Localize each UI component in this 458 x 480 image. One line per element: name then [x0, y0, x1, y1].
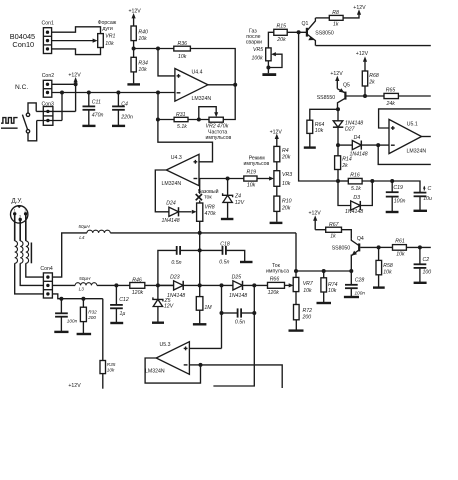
zener Z5 12V — [152, 285, 174, 322]
resistor R66 120k — [268, 277, 294, 296]
svg-text:R34: R34 — [138, 61, 148, 67]
wire stub A left — [213, 313, 254, 386]
svg-text:C12: C12 — [119, 297, 129, 303]
svg-text:1M: 1M — [204, 305, 212, 311]
svg-text:10k: 10k — [138, 67, 147, 73]
svg-text:R46: R46 — [132, 278, 142, 284]
svg-text:Con10: Con10 — [12, 40, 34, 49]
svg-text:R31: R31 — [176, 112, 186, 118]
diode D23 1N4148 — [156, 275, 233, 299]
svg-text:VR1: VR1 — [105, 34, 115, 40]
svg-text:R32: R32 — [88, 309, 97, 314]
svg-text:20k: 20k — [276, 37, 286, 43]
resistor R65 24k — [365, 88, 431, 107]
capacitor C21 100n — [414, 247, 432, 282]
svg-text:R16: R16 — [350, 172, 360, 178]
capacitor 100n (Con4) — [54, 299, 77, 332]
svg-text:1: 1 — [14, 208, 16, 212]
svg-text:LM324N: LM324N — [407, 148, 427, 154]
label N.C. — [15, 84, 28, 91]
svg-text:10k: 10k — [178, 54, 187, 60]
wire U5.3 output feedback — [145, 358, 202, 383]
svg-text:R4: R4 — [282, 148, 289, 154]
resistor 1M — [193, 285, 212, 324]
svg-text:Z4: Z4 — [234, 193, 241, 199]
label Форсаж дуги — [98, 20, 117, 32]
resistor R72 200 — [289, 292, 313, 331]
wire U5.3 -input row stub B — [189, 365, 282, 388]
svg-text:0.5n: 0.5n — [219, 259, 229, 265]
svg-text:L4: L4 — [79, 235, 85, 240]
svg-text:Con4: Con4 — [40, 266, 53, 272]
resistor R68 2k — [356, 51, 379, 98]
switch — [22, 103, 36, 141]
X mark base current test point — [196, 194, 202, 200]
svg-text:R68: R68 — [369, 73, 379, 79]
svg-text:R66: R66 — [270, 277, 280, 283]
svg-text:импульсов: импульсов — [244, 161, 270, 167]
svg-text:C2: C2 — [423, 257, 430, 263]
ground under VR5 — [262, 73, 276, 76]
svg-text:5.1k: 5.1k — [177, 124, 187, 130]
connector DIN remote — [11, 206, 28, 223]
svg-text:120k: 120k — [268, 290, 280, 296]
wire Con1 pin3 to VR1 bottom — [52, 48, 101, 55]
power +12V above R40 — [129, 9, 142, 27]
svg-text:R8: R8 — [332, 10, 339, 16]
svg-text:+12V: +12V — [353, 5, 366, 11]
wire U5.3 +input — [189, 347, 221, 349]
svg-text:50µH: 50µH — [78, 224, 90, 229]
svg-text:R61: R61 — [395, 239, 405, 245]
wire Con4 pin3 row — [52, 294, 102, 301]
diode D24 1N4148 — [162, 201, 192, 224]
svg-text:C18: C18 — [220, 241, 230, 247]
svg-text:D24: D24 — [166, 201, 176, 207]
svg-text:C28: C28 — [355, 278, 365, 284]
svg-text:10k: 10k — [396, 252, 405, 258]
svg-text:100n: 100n — [67, 318, 78, 323]
wire Con4 pin1 to L4 row — [52, 233, 87, 277]
resistor R15 20k — [268, 23, 306, 48]
transformer choke 3-wire — [15, 215, 44, 294]
svg-text:Q4: Q4 — [357, 236, 364, 242]
resistor R61 10k — [379, 239, 431, 258]
svg-text:10k: 10k — [105, 41, 114, 47]
svg-text:D27: D27 — [345, 126, 356, 132]
wire -input node to R31 row — [156, 118, 174, 122]
power +12V at Q5 — [330, 71, 343, 89]
wire U5.1 output stub — [422, 136, 431, 138]
power +12V at R67 — [309, 210, 322, 229]
svg-text:U5.3: U5.3 — [160, 342, 171, 348]
svg-text:220n: 220n — [120, 114, 133, 120]
svg-text:0.5n: 0.5n — [171, 260, 181, 266]
svg-text:20k: 20k — [281, 205, 291, 211]
diode D3 1N4148 loop — [338, 181, 372, 215]
op-amp U4.4 LM324N — [175, 69, 211, 103]
resistor R34 10k — [131, 49, 148, 84]
svg-text:R65: R65 — [386, 88, 396, 94]
connector Con1 — [42, 21, 55, 54]
wire U4.3 output to D24 — [155, 170, 169, 212]
svg-text:Q5: Q5 — [343, 83, 350, 89]
ground under R34 — [127, 83, 140, 85]
capacitor C12 1u — [110, 283, 129, 323]
label Частота импульсов — [206, 130, 232, 141]
svg-text:100: 100 — [423, 270, 432, 276]
wire Con1 pin2 wiper arrow — [52, 39, 98, 43]
svg-text:R10: R10 — [282, 198, 292, 204]
power +12V above R4 — [270, 129, 283, 146]
svg-text:3: 3 — [19, 215, 21, 219]
label Ток импульса — [266, 263, 289, 274]
potentiometer VR3 10k — [274, 171, 292, 187]
wire to U4.3 +input — [158, 120, 213, 162]
svg-text:10k: 10k — [282, 181, 291, 187]
svg-text:Д.У.: Д.У. — [12, 197, 23, 204]
wire U4.4 output and feedback to VR2 right — [208, 83, 237, 120]
potentiometer VR7 10k — [293, 277, 314, 294]
svg-text:VR5: VR5 — [253, 47, 263, 53]
svg-text:D25: D25 — [232, 275, 242, 281]
resistor R64 10k — [307, 107, 340, 146]
square wave symbol — [1, 118, 18, 129]
svg-text:VR3: VR3 — [282, 172, 292, 178]
svg-text:R72: R72 — [303, 308, 313, 314]
svg-text:2k: 2k — [341, 163, 348, 169]
svg-text:D3: D3 — [353, 195, 360, 201]
resistor R19 10k — [244, 170, 274, 189]
svg-text:10k: 10k — [107, 367, 115, 372]
svg-text:5.1k: 5.1k — [351, 186, 361, 192]
svg-text:12V: 12V — [164, 304, 174, 310]
svg-text:10k: 10k — [328, 288, 337, 294]
svg-text:U4.4: U4.4 — [192, 69, 203, 75]
capacitor C28 100n — [344, 271, 365, 297]
svg-text:10u: 10u — [423, 196, 432, 202]
resistor R67 1k — [315, 222, 351, 240]
svg-text:R74: R74 — [328, 282, 338, 288]
svg-text:1k: 1k — [333, 21, 339, 27]
connector Con4 — [40, 266, 53, 298]
connector Con3 — [42, 101, 55, 125]
svg-text:2: 2 — [25, 208, 27, 212]
capacitor C4 220n — [112, 93, 133, 126]
svg-text:N.C.: N.C. — [15, 84, 28, 91]
svg-text:Con3: Con3 — [42, 101, 55, 107]
capacitor C electrolytic 10u — [392, 181, 432, 211]
label Газ после сварки — [246, 28, 262, 45]
wire pulse current node column — [294, 233, 353, 278]
wire U5.1 +input feedback — [379, 109, 431, 128]
svg-text:470k: 470k — [205, 211, 217, 217]
svg-text:R35: R35 — [107, 362, 116, 367]
svg-text:VR8: VR8 — [205, 204, 215, 210]
wire VR8 bottom column — [198, 233, 202, 288]
resistor R8 1k — [316, 10, 360, 28]
resistor R46 120k — [130, 278, 174, 296]
wire U4.3 -input row — [199, 177, 244, 181]
svg-text:R40: R40 — [138, 30, 148, 36]
power +12V at Con2/Con3 — [68, 73, 81, 112]
resistor R4 20k — [274, 146, 291, 170]
wire -input row y92.5 — [52, 91, 175, 120]
svg-text:1µ: 1µ — [120, 311, 126, 317]
svg-text:200: 200 — [302, 314, 312, 320]
svg-text:0.5n: 0.5n — [235, 319, 245, 325]
resistor R40 10k — [131, 26, 148, 49]
transistor Q4 SS8050 — [332, 236, 379, 271]
resistor R31 5.1k — [174, 112, 209, 130]
ground under R64 — [304, 146, 316, 148]
svg-text:U5.1: U5.1 — [407, 122, 418, 128]
resistor R36 10k — [174, 41, 191, 60]
resistor R16 5.1k — [336, 172, 392, 191]
diode D27 1N4148 — [333, 109, 363, 145]
svg-text:R15: R15 — [277, 23, 287, 29]
potentiometer VR2 470k — [197, 107, 229, 130]
svg-text:100n: 100n — [394, 198, 406, 204]
capacitor C11 470n — [82, 93, 103, 126]
capacitor 0.5n lower — [220, 285, 257, 348]
label +12V at R35 — [68, 383, 81, 389]
capacitor C18 0.5n — [200, 241, 253, 265]
svg-text:+12V: +12V — [270, 129, 283, 135]
wire Con1 pin1 to VR1 top — [52, 27, 101, 34]
resistor R74 10k — [317, 271, 338, 303]
svg-text:10k: 10k — [303, 288, 312, 294]
svg-text:LM324N: LM324N — [162, 181, 182, 187]
zener Z4 12V — [221, 179, 245, 220]
svg-text:+12V: +12V — [68, 383, 81, 389]
svg-text:200: 200 — [87, 315, 96, 320]
svg-text:C4: C4 — [121, 102, 128, 108]
svg-text:+12V: +12V — [129, 9, 142, 15]
svg-text:+12V: +12V — [68, 73, 81, 79]
potentiometer VR5 100k — [252, 47, 283, 73]
svg-text:C: C — [428, 186, 432, 192]
label Базовый ток — [198, 188, 219, 201]
resistor R10 20k — [274, 186, 292, 222]
svg-text:2k: 2k — [368, 80, 375, 86]
svg-text:1N4148: 1N4148 — [162, 218, 180, 224]
svg-text:Форсаж: Форсаж — [98, 20, 117, 26]
svg-text:Con1: Con1 — [42, 21, 55, 27]
power +12V at R8 — [353, 5, 366, 15]
svg-text:D4: D4 — [354, 135, 361, 141]
svg-text:L3: L3 — [79, 287, 85, 292]
svg-text:LM324N: LM324N — [145, 368, 165, 374]
svg-text:R64: R64 — [315, 122, 325, 128]
resistor R35 10k — [100, 299, 116, 389]
wire divider node to R36 and +input — [132, 47, 175, 76]
svg-text:100n: 100n — [355, 290, 366, 295]
svg-text:+12V: +12V — [309, 210, 322, 216]
svg-text:+12V: +12V — [356, 51, 369, 57]
svg-text:Q1: Q1 — [302, 21, 309, 27]
svg-text:12V: 12V — [235, 200, 245, 206]
svg-text:120k: 120k — [132, 290, 144, 296]
inductor L3 50uH — [52, 276, 129, 292]
svg-text:1N4148: 1N4148 — [350, 152, 368, 158]
svg-text:R67: R67 — [329, 222, 340, 228]
svg-text:импульса: импульса — [266, 268, 289, 274]
svg-text:10k: 10k — [383, 269, 392, 275]
potentiometer VR8 470k — [192, 179, 216, 233]
op-amp U5.1 LM324N — [389, 119, 426, 154]
capacitor 0.5n upper left — [158, 246, 200, 285]
label Д.У. — [12, 197, 23, 204]
svg-text:ток: ток — [204, 194, 212, 200]
ground under R10 — [270, 222, 283, 224]
svg-text:D23: D23 — [170, 275, 180, 281]
svg-text:10k: 10k — [247, 183, 256, 189]
label B04045 Con10 — [10, 32, 35, 49]
resistor R32 200 — [77, 299, 98, 334]
svg-text:20k: 20k — [281, 155, 291, 161]
transistor Q1 SS8050 — [297, 18, 334, 46]
wire R36 to U4.4 output — [190, 49, 235, 85]
svg-text:1N4148: 1N4148 — [345, 209, 363, 215]
svg-text:VR7: VR7 — [303, 281, 314, 287]
svg-text:импульсов: импульсов — [206, 135, 232, 141]
svg-text:1N4148: 1N4148 — [229, 293, 247, 299]
op-amp U4.3 LM324N — [162, 154, 200, 187]
capacitor C19 100n — [386, 179, 406, 212]
svg-text:R58: R58 — [383, 263, 393, 269]
wire Con3 pin2 row — [37, 93, 62, 121]
transistor Q5 SS8550 — [317, 83, 365, 110]
op-amp U5.3 LM324N — [145, 342, 189, 375]
resistor R58 10k — [373, 245, 393, 287]
wire L4 row to VR7 column — [110, 231, 296, 235]
svg-text:U4.3: U4.3 — [171, 155, 182, 161]
wire Con3 pin1 row — [36, 110, 75, 112]
svg-text:10k: 10k — [138, 36, 147, 42]
svg-text:+12V: +12V — [330, 71, 343, 77]
svg-text:C11: C11 — [92, 100, 101, 106]
svg-text:сварки: сварки — [246, 39, 262, 45]
svg-text:R19: R19 — [247, 170, 257, 176]
diode D4 1N4148 — [338, 135, 378, 158]
wire stub from D25 node down — [253, 285, 255, 313]
svg-text:Con2: Con2 — [42, 73, 55, 79]
svg-text:SS8550: SS8550 — [317, 95, 336, 101]
resistor R14 2k — [335, 143, 352, 181]
svg-text:100k: 100k — [252, 56, 264, 62]
svg-text:LM324N: LM324N — [192, 96, 212, 102]
wire Q1 emitter long line — [316, 45, 431, 47]
svg-text:10k: 10k — [315, 128, 324, 134]
connector Con2 — [42, 73, 76, 97]
svg-text:SS8050: SS8050 — [332, 245, 351, 251]
svg-text:дуги: дуги — [102, 26, 113, 32]
svg-text:1k: 1k — [330, 234, 336, 240]
potentiometer VR1 10k — [98, 34, 116, 48]
wire U5.1 -input node — [376, 143, 431, 164]
diode D25 1N4148 — [229, 275, 268, 299]
svg-text:R36: R36 — [178, 41, 188, 47]
inductor L4 50uH — [78, 224, 110, 240]
svg-text:470n: 470n — [92, 112, 104, 118]
label Режим импульсов — [244, 155, 270, 166]
svg-text:24k: 24k — [386, 101, 396, 107]
svg-text:50µH: 50µH — [79, 276, 91, 281]
wire Q1 base vertical to R16 row — [299, 32, 338, 181]
svg-text:SS8050: SS8050 — [315, 31, 334, 37]
svg-text:C19: C19 — [393, 185, 403, 191]
